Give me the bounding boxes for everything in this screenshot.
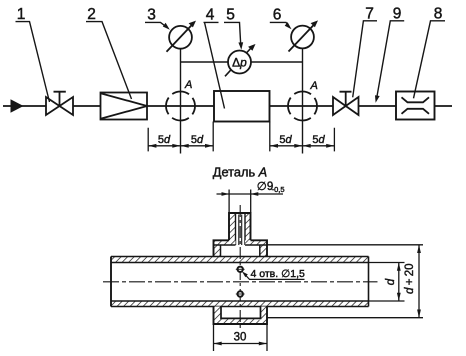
dim d+20 ext lines (267, 245, 423, 318)
gauge 3 (167, 21, 197, 52)
node A right dashed circle (288, 92, 317, 121)
bottom boss chamber walls (214, 307, 222, 325)
svg-text:Δp: Δp (232, 56, 247, 70)
callout 7 (353, 6, 377, 98)
bottom boss outline (214, 307, 268, 325)
dim line 5d right pair (270, 145, 335, 147)
hole bottom circle (238, 291, 243, 296)
pipe right end cap (368, 257, 370, 307)
svg-text:4: 4 (206, 7, 215, 24)
callout 5 (224, 7, 243, 50)
dim 30 ext lines (214, 324, 268, 351)
svg-text:A: A (184, 79, 192, 91)
centerline vertical (239, 205, 241, 331)
wire impulse vertical left (180, 49, 182, 154)
svg-text:1: 1 (17, 6, 26, 23)
svg-text:A: A (310, 80, 318, 92)
svg-text:Деталь A: Деталь A (213, 165, 267, 180)
dim ext lines dia9 (229, 190, 251, 214)
svg-text:8: 8 (434, 6, 443, 23)
pipe bottom wall (111, 301, 369, 307)
dim line dia9 (217, 193, 284, 195)
svg-text:7: 7 (365, 6, 374, 23)
flow straightener 2 (101, 93, 148, 120)
dp gauge 5 (225, 44, 256, 76)
dim extension lines top schematic (148, 122, 334, 152)
callout 6 (270, 7, 292, 30)
flow arrow inlet (11, 99, 24, 112)
callout 8 (414, 6, 446, 99)
svg-text:5d: 5d (158, 134, 171, 146)
svg-text:5d: 5d (279, 134, 292, 146)
svg-text:6: 6 (273, 7, 282, 24)
svg-text:4 отв. ∅1,5: 4 отв. ∅1,5 (251, 268, 305, 280)
svg-text:d + 20: d + 20 (404, 263, 416, 294)
callout 4 (204, 7, 225, 109)
hole top circle (238, 267, 243, 272)
svg-text:30: 30 (234, 332, 247, 344)
valve V7 stem (340, 92, 352, 106)
flange hatched band (214, 240, 236, 245)
wire main pipe line (3, 105, 452, 107)
callout 3 (145, 7, 170, 30)
svg-text:5d: 5d (312, 134, 325, 146)
svg-text:-0,5: -0,5 (272, 185, 285, 194)
callout 2 (86, 6, 132, 99)
callout 9 (375, 6, 404, 103)
centerline horizontal (103, 281, 378, 283)
callout 1 (16, 6, 50, 102)
boss tube outline (229, 213, 251, 240)
boss tube bore lines (236, 213, 246, 245)
node A left dashed circle (166, 92, 195, 121)
dim d ext lines (369, 263, 405, 302)
svg-text:2: 2 (87, 6, 96, 23)
dim d line (398, 263, 400, 302)
flange outline (214, 240, 268, 256)
svg-text:5d: 5d (191, 134, 204, 146)
valve V7 (333, 97, 359, 115)
gauge 6 (289, 20, 319, 51)
pipe left end cap (110, 257, 112, 307)
dim d+20 line (418, 245, 420, 318)
svg-text:5: 5 (226, 7, 235, 24)
flowmeter 8 (396, 92, 435, 120)
svg-text:d: d (385, 278, 397, 285)
wire impulse horizontal (181, 61, 303, 63)
boss tube hatched walls (229, 213, 236, 240)
boss small hole lines (239, 215, 242, 246)
dim 30 line (214, 343, 268, 345)
wire impulse vertical right (302, 48, 304, 153)
valve V1 (46, 97, 73, 115)
svg-text:9: 9 (393, 6, 402, 23)
flange recess rect (214, 245, 268, 256)
dim line 5d left pair (148, 145, 213, 147)
valve V1 stem (54, 92, 66, 106)
pipe top wall (111, 257, 369, 263)
orifice block 4 (214, 91, 270, 122)
svg-text:3: 3 (147, 7, 156, 24)
bottom boss recess (221, 307, 261, 319)
